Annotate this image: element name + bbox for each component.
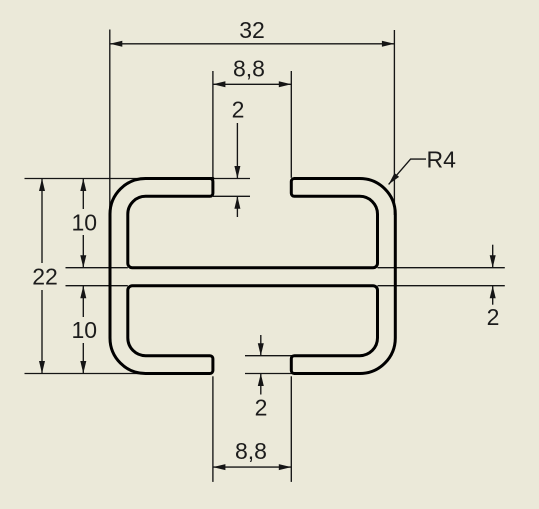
extension line 32 right [393, 30, 395, 215]
arrowhead 10 bottom upper [80, 286, 86, 299]
svg-text:R4: R4 [427, 147, 457, 173]
arrowhead 10 bottom lower [80, 361, 86, 374]
leader R4 [389, 159, 426, 184]
svg-text:8,8: 8,8 [233, 56, 265, 82]
svg-text:32: 32 [239, 17, 265, 43]
arrowhead 8,8 bottom right [279, 464, 292, 470]
svg-text:2: 2 [232, 96, 245, 122]
arrowhead 2 right upper [490, 255, 496, 268]
dimension line 10 top segment b [82, 235, 84, 268]
arrowhead 32 left [110, 41, 123, 47]
extension line 32 left [109, 30, 111, 216]
dimension line 10 top segment a [82, 179, 84, 210]
extension line web top left [66, 267, 128, 269]
dimension line 2 top upper segment [236, 123, 238, 179]
svg-text:2: 2 [255, 394, 268, 420]
arrowhead 10 top upper [80, 179, 86, 192]
profile outline [110, 179, 395, 374]
arrowhead R4 leader [389, 173, 400, 184]
svg-text:2: 2 [487, 304, 500, 330]
extension line 8,8 bottom left [212, 376, 214, 482]
arrowhead 2 top lower [234, 196, 240, 209]
dimension line 2 right lower segment [492, 286, 494, 305]
arrowhead 2 bottom upper [258, 343, 264, 356]
extension line 2 bottom upper [245, 355, 296, 357]
extension line web top right [378, 267, 505, 269]
extension line 2 top lower [213, 195, 250, 197]
extension line bottom face left [25, 373, 147, 375]
extension line 2 top upper [213, 178, 250, 180]
arrowhead 8,8 bottom left [213, 464, 226, 470]
arrowhead 8,8 top left [213, 81, 226, 87]
dimension line 8,8 top [213, 83, 291, 85]
dimension line 10 bottom segment b [82, 343, 84, 374]
arrowhead 2 top upper [234, 166, 240, 179]
arrowhead 22 bottom [39, 361, 45, 374]
extension line top face left [25, 178, 147, 180]
dimension line 8,8 bottom [213, 466, 291, 468]
extension line web bottom left [66, 285, 128, 287]
svg-text:8,8: 8,8 [235, 438, 267, 464]
svg-text:22: 22 [32, 264, 58, 290]
extension line 2 bottom lower [245, 373, 296, 375]
extension line 8,8 top right [290, 71, 292, 178]
extension line 8,8 top left [212, 71, 214, 178]
arrowhead 2 right lower [490, 286, 496, 299]
arrowhead 8,8 top right [279, 81, 292, 87]
svg-text:10: 10 [72, 209, 98, 235]
dimension line 2 bottom lower segment [260, 374, 262, 395]
arrowhead 22 top [39, 179, 45, 192]
arrowhead 2 bottom lower [258, 374, 264, 387]
dimension line 10 bottom segment a [82, 286, 84, 317]
dimension line 22 lower segment [41, 290, 43, 374]
arrowhead 10 top lower [80, 255, 86, 268]
dimension line 2 top lower segment [236, 196, 238, 217]
svg-text:10: 10 [72, 317, 98, 343]
dimension line 2 right upper segment [492, 245, 494, 268]
extension line web bottom right [378, 285, 505, 287]
extension line 8,8 bottom right [290, 376, 292, 482]
dimension line 2 bottom upper segment [260, 335, 262, 356]
dimension line 32 [110, 43, 395, 45]
arrowhead 32 right [382, 41, 395, 47]
dimension line 22 upper segment [41, 179, 43, 264]
